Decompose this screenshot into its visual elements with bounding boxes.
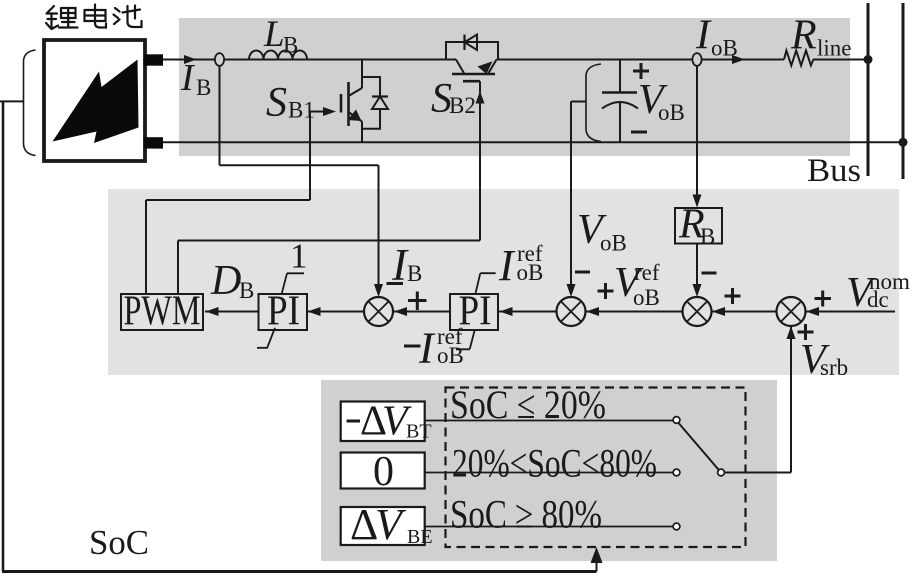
svg-text:B1: B1 (288, 98, 315, 123)
svg-text:20%<SoC<80%: 20%<SoC<80% (452, 441, 657, 486)
svg-text:SoC ≥ 80%: SoC ≥ 80% (450, 492, 602, 537)
svg-text:BT: BT (406, 421, 432, 443)
svg-text:B: B (239, 278, 254, 303)
svg-text:SoC ≤ 20%: SoC ≤ 20% (450, 382, 606, 427)
svg-text:B: B (407, 261, 422, 286)
svg-text:D: D (210, 258, 241, 304)
svg-text:L: L (263, 14, 285, 55)
svg-text:S: S (266, 80, 287, 126)
svg-text:0: 0 (373, 449, 394, 495)
svg-text:oB: oB (600, 231, 627, 256)
svg-text:BE: BE (407, 526, 433, 548)
svg-text:Bus: Bus (807, 153, 861, 189)
svg-text:R: R (790, 13, 817, 59)
svg-text:I: I (498, 241, 516, 290)
svg-text:dc: dc (867, 287, 889, 312)
svg-text:oB: oB (658, 100, 685, 125)
svg-text:ref: ref (634, 260, 660, 285)
svg-text:srb: srb (820, 355, 848, 380)
svg-text:PWM: PWM (124, 289, 201, 335)
svg-text:I: I (695, 13, 712, 59)
svg-text:oB: oB (711, 36, 738, 61)
svg-text:I: I (418, 324, 436, 373)
svg-text:B: B (196, 75, 211, 100)
svg-text:oB: oB (633, 285, 660, 310)
svg-text:oB: oB (437, 343, 464, 368)
svg-text:SoC: SoC (89, 523, 149, 562)
svg-text:Δ: Δ (350, 500, 378, 549)
svg-text:I: I (180, 57, 196, 99)
svg-text:line: line (817, 36, 852, 61)
svg-text:B2: B2 (449, 93, 476, 118)
svg-text:B: B (283, 33, 298, 58)
svg-text:PI: PI (267, 289, 300, 335)
svg-text:oB: oB (517, 260, 544, 285)
svg-text:PI: PI (459, 289, 492, 335)
svg-text:Δ: Δ (360, 399, 387, 445)
svg-text:B: B (700, 224, 715, 249)
svg-text:1: 1 (290, 237, 308, 276)
